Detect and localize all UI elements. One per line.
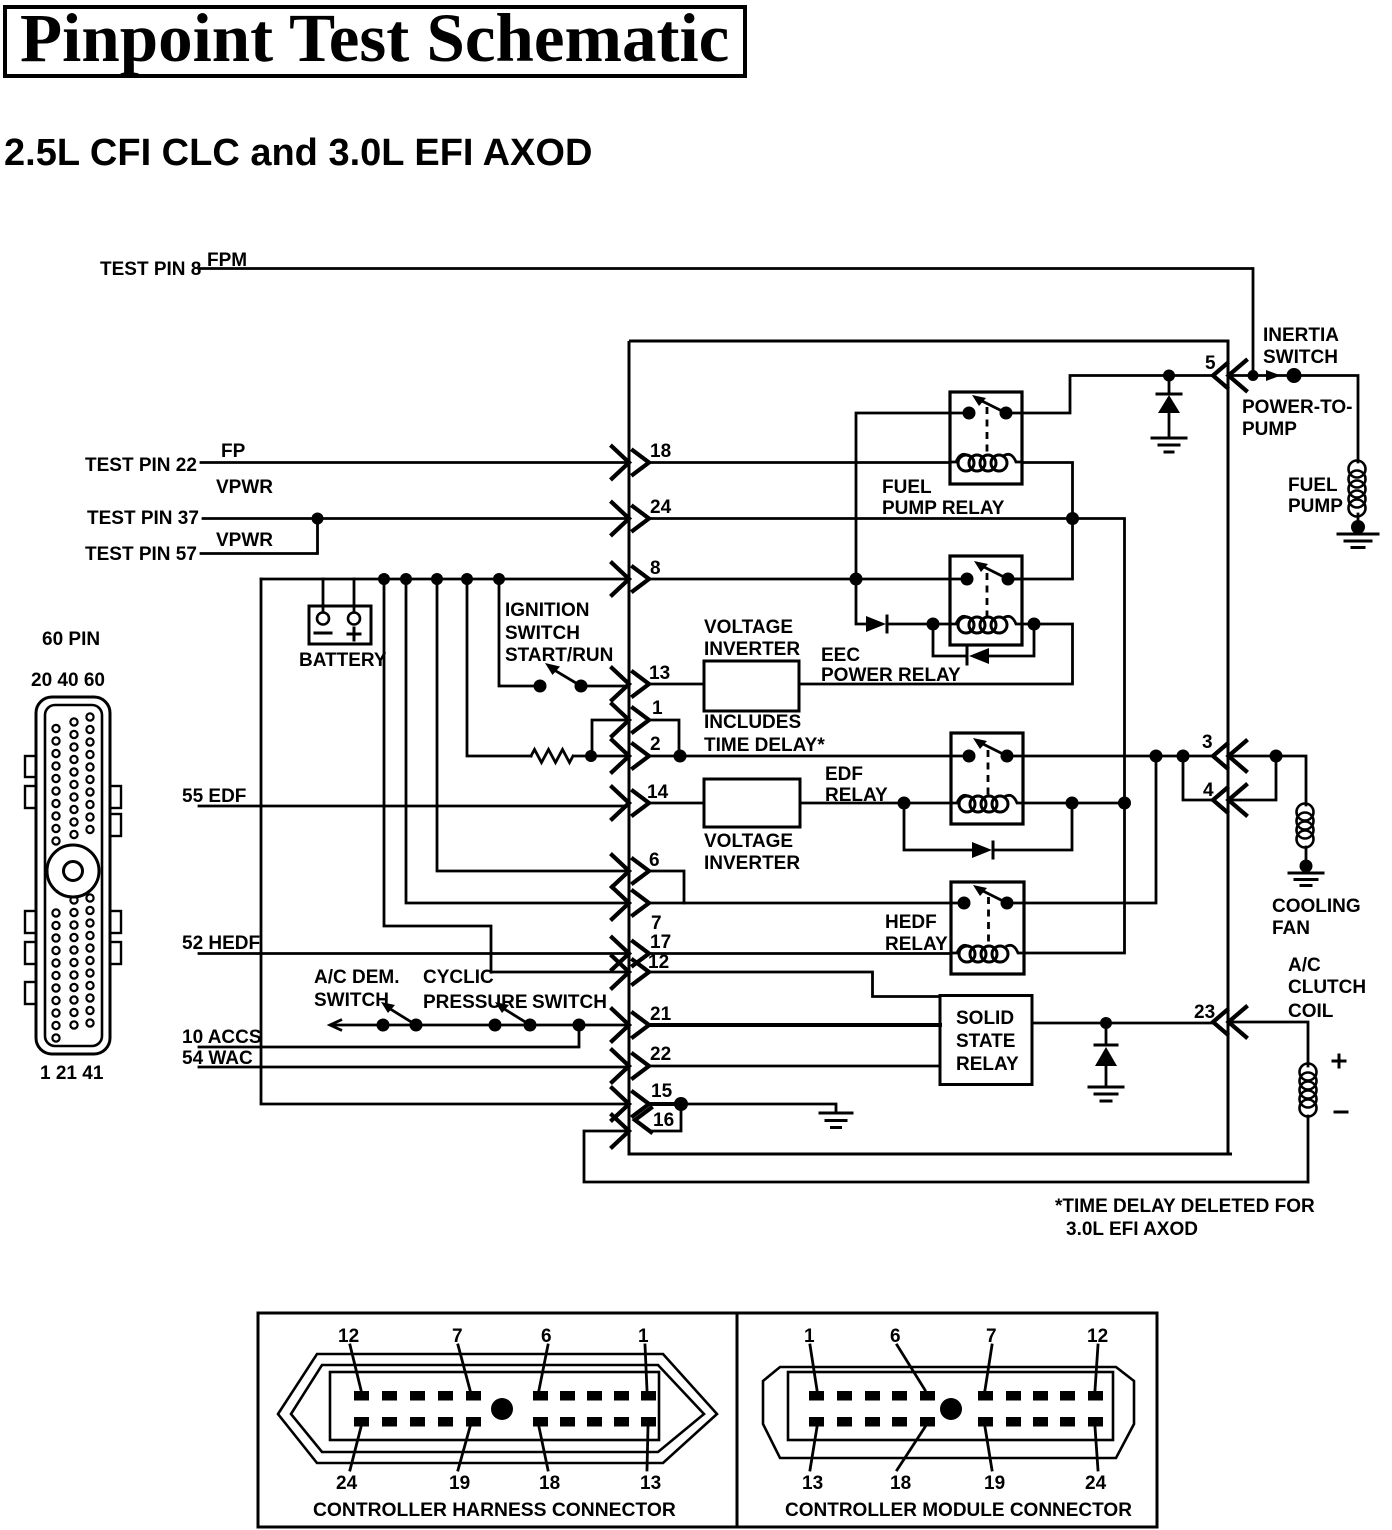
ground below D1	[1152, 438, 1186, 452]
wire pin 8 internal	[650, 578, 950, 581]
60 pin connector J1	[25, 629, 121, 1084]
svg-text:CONTROLLER MODULE CONNECTOR: CONTROLLER MODULE CONNECTOR	[785, 1500, 1132, 1521]
diode D1 to ground	[1157, 376, 1181, 438]
svg-text:VOLTAGE: VOLTAGE	[704, 617, 793, 638]
resistor R1	[531, 750, 573, 763]
pin 1 connector symbol	[612, 698, 663, 736]
svg-text:19: 19	[449, 1473, 470, 1494]
pin 4 connector symbol	[1203, 780, 1246, 815]
wire VPWR57 joining junction	[201, 519, 318, 554]
wire bus drop to resistor	[467, 579, 531, 756]
junction pin8 fuel relay feed	[850, 573, 863, 586]
diode D5 to ground	[1095, 1023, 1117, 1086]
svg-text:CONTROLLER HARNESS CONNECTOR: CONTROLLER HARNESS CONNECTOR	[313, 1500, 676, 1521]
wire EEC coil right to inverter U1 output	[799, 624, 1073, 684]
svg-text:12: 12	[338, 1326, 359, 1347]
svg-text:13: 13	[649, 663, 670, 684]
svg-text:1: 1	[652, 698, 663, 719]
wire pin 16 return from A/C clutch coil	[584, 1131, 1308, 1182]
pin 24 connector symbol	[612, 497, 672, 535]
junction pins 15/16	[674, 1097, 688, 1111]
svg-text:60 PIN: 60 PIN	[42, 629, 100, 650]
svg-text:5: 5	[1205, 353, 1216, 374]
junction EDF coil left	[898, 797, 911, 810]
svg-text:CYCLIC: CYCLIC	[423, 967, 494, 988]
wire 54 WAC to pin 22	[199, 1066, 629, 1069]
svg-text:PUMP: PUMP	[1288, 496, 1343, 517]
svg-text:SWITCH: SWITCH	[1263, 347, 1338, 368]
svg-text:COOLING: COOLING	[1272, 896, 1361, 917]
wire bus drop to pin 12	[384, 579, 627, 972]
svg-text:8: 8	[650, 558, 661, 579]
junction FPM inertia	[1248, 370, 1259, 381]
wire pins 15/16 to ground	[681, 1104, 836, 1112]
snubber diode D3 across EEC coil	[933, 624, 1034, 664]
pin 8 connector symbol	[612, 558, 661, 595]
svg-text:4: 4	[1203, 780, 1214, 801]
wire bus drop to pin 6	[437, 579, 627, 871]
svg-text:12: 12	[648, 952, 669, 973]
relay K1 fuel pump relay	[950, 392, 1022, 484]
minus terminal label	[1335, 1111, 1347, 1114]
wire pin 4 up to junction	[1229, 756, 1276, 800]
svg-text:PRESSURE: PRESSURE	[423, 992, 528, 1013]
controller harness connector J2	[278, 1326, 717, 1521]
wire supply bus	[261, 578, 627, 581]
svg-text:3.0L EFI AXOD: 3.0L EFI AXOD	[1066, 1219, 1198, 1240]
cyclic pressure switch S3	[423, 967, 607, 1032]
controller module connector J3	[763, 1326, 1134, 1521]
svg-text:POWER-TO-: POWER-TO-	[1242, 397, 1352, 418]
junction EDF out pin4	[1177, 750, 1190, 763]
wire pin 7 to HEDF contact	[650, 902, 951, 905]
junction bus B	[400, 573, 412, 585]
svg-text:55 EDF: 55 EDF	[182, 786, 246, 807]
wire bus drop to ignition switch	[499, 579, 540, 686]
wire FP to pin 18	[201, 461, 627, 464]
wire pin 17 to HEDF coil	[650, 952, 951, 955]
wire A/C switch line to pin 21	[334, 1024, 627, 1027]
svg-text:21: 21	[650, 1004, 672, 1025]
svg-text:STATE: STATE	[956, 1031, 1015, 1052]
junction cooling fan	[1270, 750, 1283, 763]
svg-text:18: 18	[650, 441, 671, 462]
wire EEC coil stubs	[933, 623, 1034, 626]
ground below D5	[1089, 1087, 1123, 1101]
wire VPWR to pin 24	[203, 517, 627, 520]
pin 5 connector symbol	[1205, 353, 1246, 391]
wire pin 5 to fuel pump	[1229, 376, 1358, 463]
wire EDF coil right stub	[1023, 802, 1125, 805]
bottom connectors outer frame	[258, 1313, 1157, 1527]
svg-text:6: 6	[649, 850, 660, 871]
svg-text:PUMP: PUMP	[1242, 419, 1297, 440]
svg-text:FUEL: FUEL	[1288, 475, 1338, 496]
svg-text:FP: FP	[221, 441, 246, 462]
svg-text:VPWR: VPWR	[216, 477, 273, 498]
junction bus D	[461, 573, 473, 585]
svg-text:15: 15	[651, 1081, 673, 1102]
svg-text:18: 18	[539, 1473, 560, 1494]
wire 10 ACCS riser to switch line	[199, 1025, 579, 1047]
junction EEC coil left	[927, 618, 940, 631]
svg-text:TEST PIN 37: TEST PIN 37	[87, 508, 199, 529]
svg-text:INVERTER: INVERTER	[704, 853, 800, 874]
ground cooling fan	[1289, 860, 1323, 886]
junction EEC coil right	[1028, 618, 1041, 631]
wire bus drop to pin 7	[406, 579, 627, 903]
relay K2 EEC power relay	[950, 556, 1022, 645]
svg-text:A/C: A/C	[1288, 955, 1321, 976]
svg-text:BATTERY: BATTERY	[299, 650, 387, 671]
wire 52 HEDF to pin 17	[199, 952, 627, 955]
svg-text:SWITCH: SWITCH	[532, 992, 607, 1013]
wire pin 1 internal bracket	[650, 720, 679, 756]
ignition switch S1	[505, 600, 613, 693]
svg-text:TEST PIN 57: TEST PIN 57	[85, 544, 197, 565]
svg-text:RELAY: RELAY	[885, 934, 948, 955]
wire fuel relay contact out to pin 5 line	[1022, 376, 1212, 414]
wire resistor to pin 2	[574, 755, 627, 758]
wire pin 2 to EDF relay contact	[650, 755, 951, 758]
svg-text:IGNITION: IGNITION	[505, 600, 589, 621]
wire FPM from test pin 8 to inertia node	[200, 269, 1253, 376]
wire pin 15 internal	[650, 1102, 681, 1106]
junction pin1 bracket	[585, 750, 597, 762]
junction VPWR EDF coil	[1118, 797, 1131, 810]
inertia switch S4	[1266, 368, 1302, 383]
wire pin 13 to inverter U1	[650, 683, 704, 686]
svg-text:COIL: COIL	[1288, 1001, 1334, 1022]
junction EDF out HEDF	[1150, 750, 1163, 763]
svg-text:24: 24	[650, 497, 672, 518]
pin 13 connector symbol	[612, 663, 670, 700]
wire pin 22 to solid state relay	[650, 1065, 940, 1068]
junction EDF coil right	[1066, 797, 1079, 810]
svg-text:13: 13	[640, 1473, 661, 1494]
svg-text:SOLID: SOLID	[956, 1008, 1014, 1029]
pin 22 connector symbol	[612, 1044, 671, 1082]
wire inverter U2 to EDF coil	[800, 802, 951, 805]
svg-text:22: 22	[650, 1044, 671, 1065]
junction diode D1 tap	[1163, 370, 1175, 382]
pin 15 connector symbol	[612, 1081, 673, 1120]
voltage inverter U1 box	[704, 617, 800, 711]
svg-text:2.5L CFI CLC and 3.0L EFI AXOD: 2.5L CFI CLC and 3.0L EFI AXOD	[4, 132, 592, 174]
wire pin 6 internal bracket	[651, 871, 684, 903]
svg-text:FUEL: FUEL	[882, 477, 932, 498]
pin 12 connector symbol	[612, 952, 669, 988]
pin 3 connector symbol	[1202, 732, 1246, 771]
svg-text:TEST PIN 8: TEST PIN 8	[100, 259, 201, 280]
svg-text:INERTIA: INERTIA	[1263, 325, 1339, 346]
svg-text:16: 16	[653, 1110, 674, 1131]
plus terminal label	[1333, 1055, 1345, 1067]
wire pin 24 VPWR internal	[650, 519, 1125, 954]
wire pin8 junction down to diode D2	[856, 579, 866, 624]
wire pin 21 to solid state relay	[650, 1023, 940, 1027]
svg-text:1: 1	[638, 1326, 649, 1347]
A/C demand switch S2	[314, 967, 423, 1032]
svg-text:TEST PIN 22: TEST PIN 22	[85, 455, 197, 476]
pin 18 connector symbol	[612, 441, 671, 479]
wire 55 EDF to pin 14	[199, 805, 627, 808]
title box	[5, 7, 745, 76]
svg-text:14: 14	[647, 782, 669, 803]
svg-text:HEDF: HEDF	[885, 912, 937, 933]
EEC module box outline	[629, 341, 1232, 1154]
svg-text:18: 18	[890, 1473, 911, 1494]
svg-text:52 HEDF: 52 HEDF	[182, 933, 260, 954]
wire pin 16 internal loop	[651, 1106, 681, 1131]
svg-text:SWITCH: SWITCH	[314, 990, 389, 1011]
wire pin 18 to fuel pump relay coil	[650, 461, 950, 464]
svg-text:10 ACCS: 10 ACCS	[182, 1027, 262, 1048]
svg-text:13: 13	[802, 1473, 823, 1494]
svg-text:Pinpoint Test Schematic: Pinpoint Test Schematic	[20, 0, 729, 76]
svg-text:20 40 60: 20 40 60	[31, 670, 105, 691]
battery B1	[299, 606, 387, 671]
svg-text:EDF: EDF	[825, 764, 863, 785]
wire fuel relay contact feed	[856, 413, 950, 579]
svg-text:FAN: FAN	[1272, 918, 1310, 939]
wire pin 12 to solid state relay	[650, 972, 940, 997]
wire pin 23 to A/C clutch coil	[1229, 1022, 1308, 1066]
svg-text:17: 17	[650, 932, 671, 953]
wire battery positive post	[353, 579, 356, 612]
svg-text:VOLTAGE: VOLTAGE	[704, 831, 793, 852]
svg-text:START/RUN: START/RUN	[505, 645, 613, 666]
junction bus C	[431, 573, 443, 585]
svg-text:CLUTCH: CLUTCH	[1288, 977, 1366, 998]
pin 17 connector symbol	[612, 932, 671, 970]
junction pin24 A	[1066, 512, 1079, 525]
svg-text:INVERTER: INVERTER	[704, 639, 800, 660]
pin 7 connector symbol	[612, 887, 662, 934]
junction pin1/2 internal	[674, 750, 687, 763]
svg-text:6: 6	[890, 1326, 901, 1347]
arrow open end of switch line	[330, 1020, 342, 1031]
solid state relay U3	[940, 996, 1032, 1085]
svg-text:24: 24	[336, 1473, 358, 1494]
svg-text:RELAY: RELAY	[956, 1054, 1019, 1075]
pin 2 connector symbol	[612, 734, 661, 772]
wire pin 1 outer bracket	[592, 720, 627, 756]
relay K3 EDF relay	[951, 733, 1023, 824]
cooling fan M2 coil	[1297, 804, 1314, 863]
svg-text:24: 24	[1085, 1473, 1107, 1494]
pin 14 connector symbol	[612, 782, 669, 819]
wire EDF contact out to pin 3	[1023, 755, 1212, 758]
wire fuel relay coil right to pin 24 junction	[1022, 463, 1073, 519]
svg-text:19: 19	[984, 1473, 1005, 1494]
junction SSR diode tap	[1100, 1017, 1112, 1029]
pin 16 connector symbol	[612, 1108, 674, 1147]
wire battery negative post	[322, 579, 325, 612]
svg-text:6: 6	[541, 1326, 552, 1347]
ground for pins 15/16	[820, 1113, 852, 1128]
snubber diode D4 across EDF coil	[904, 803, 1072, 858]
wire ignition switch to pin 13	[581, 685, 627, 688]
svg-text:A/C DEM.: A/C DEM.	[314, 967, 400, 988]
wire pin 14 to inverter U2	[650, 802, 704, 805]
svg-text:VPWR: VPWR	[216, 530, 273, 551]
junction VPWR	[312, 513, 324, 525]
svg-text:7: 7	[651, 913, 662, 934]
wire bus left drop to pin 15	[261, 579, 627, 1104]
svg-text:*TIME DELAY DELETED FOR: *TIME DELAY DELETED FOR	[1055, 1196, 1315, 1217]
wire branch to pin 4	[1183, 756, 1212, 800]
svg-text:23: 23	[1194, 1002, 1215, 1023]
pin 23 connector symbol	[1194, 1002, 1246, 1037]
fuel pump M1 coil	[1349, 461, 1366, 525]
svg-text:TIME DELAY*: TIME DELAY*	[704, 735, 825, 756]
svg-text:1 21 41: 1 21 41	[40, 1063, 104, 1084]
svg-text:INCLUDES: INCLUDES	[704, 712, 801, 733]
relay K4 HEDF relay	[951, 882, 1024, 974]
junction bus E	[493, 573, 505, 585]
voltage inverter U2 box	[704, 779, 800, 874]
A/C clutch coil L1	[1300, 1064, 1317, 1183]
junction ACCS	[573, 1019, 586, 1032]
svg-text:PUMP RELAY: PUMP RELAY	[882, 498, 1005, 519]
diode D2 feed EEC coil	[866, 616, 933, 632]
svg-text:EEC: EEC	[821, 645, 860, 666]
pin 6 connector symbol	[612, 850, 660, 887]
svg-text:SWITCH: SWITCH	[505, 623, 580, 644]
svg-text:3: 3	[1202, 732, 1213, 753]
wire pin 3 to cooling fan	[1229, 756, 1306, 805]
wire EEC relay contact up to pin24 junction	[1008, 519, 1073, 580]
wire SSR output to pin 23	[1032, 1022, 1212, 1025]
ground fuel pump	[1338, 520, 1378, 548]
wire HEDF contact up to EDF out	[1024, 756, 1156, 903]
junction bus A	[378, 573, 390, 585]
pin 21 connector symbol	[612, 1004, 672, 1041]
svg-text:2: 2	[650, 734, 661, 755]
